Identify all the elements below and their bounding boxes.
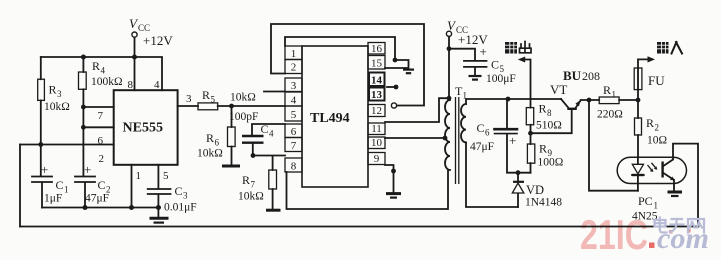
svg-text:TL494: TL494	[310, 111, 350, 126]
svg-text:1N4148: 1N4148	[525, 197, 562, 209]
svg-text:100pF: 100pF	[229, 111, 258, 123]
svg-text:6: 6	[215, 138, 220, 148]
svg-text:C: C	[477, 121, 485, 135]
svg-text:100Ω: 100Ω	[538, 157, 564, 169]
svg-text:47μF: 47μF	[470, 141, 494, 153]
svg-text:12: 12	[371, 105, 382, 117]
svg-text:+: +	[84, 162, 91, 177]
svg-text:C: C	[98, 178, 106, 192]
svg-text:11: 11	[371, 123, 382, 135]
svg-text:3: 3	[57, 89, 62, 99]
svg-text:6: 6	[98, 135, 104, 147]
svg-text:2: 2	[291, 62, 297, 74]
svg-text:1: 1	[64, 185, 69, 195]
svg-text:8: 8	[547, 108, 552, 118]
svg-text:R: R	[539, 102, 547, 116]
svg-text:R: R	[539, 142, 547, 156]
svg-text:1: 1	[463, 91, 468, 101]
svg-text:R: R	[242, 173, 250, 187]
svg-text:1: 1	[136, 170, 142, 182]
svg-text:4: 4	[101, 66, 106, 76]
svg-text:1μF: 1μF	[44, 193, 62, 205]
svg-text:1: 1	[612, 90, 617, 100]
svg-text:R: R	[49, 83, 57, 97]
svg-text:+: +	[509, 133, 516, 148]
svg-text:6: 6	[485, 128, 490, 138]
svg-text:7: 7	[98, 110, 104, 122]
svg-text:10: 10	[371, 137, 383, 149]
svg-text:13: 13	[371, 89, 383, 101]
svg-text:+: +	[480, 44, 487, 59]
svg-text:4: 4	[291, 95, 297, 107]
svg-text:208: 208	[582, 69, 600, 83]
svg-text:5: 5	[211, 95, 216, 105]
svg-text:2: 2	[99, 153, 105, 165]
svg-text:3: 3	[291, 80, 297, 92]
svg-text:2: 2	[655, 123, 660, 133]
svg-text:3: 3	[186, 93, 192, 105]
svg-text:10kΩ: 10kΩ	[230, 92, 256, 104]
svg-text:C: C	[175, 184, 183, 198]
svg-text:16: 16	[371, 43, 383, 55]
svg-text:7: 7	[251, 180, 256, 190]
svg-text:510Ω: 510Ω	[536, 120, 562, 132]
svg-text:5: 5	[291, 109, 297, 121]
svg-text:C: C	[491, 58, 499, 72]
svg-text:VT: VT	[550, 82, 567, 97]
svg-text:4: 4	[154, 79, 160, 91]
svg-text:NE555: NE555	[123, 121, 163, 136]
svg-text:1: 1	[654, 201, 659, 211]
svg-text:CC: CC	[138, 23, 150, 33]
svg-text:R: R	[202, 88, 210, 102]
svg-text:10kΩ: 10kΩ	[44, 101, 70, 113]
svg-text:1: 1	[291, 48, 297, 60]
svg-text:R: R	[646, 116, 654, 130]
svg-text:100μF: 100μF	[486, 73, 516, 85]
svg-text:100kΩ: 100kΩ	[91, 76, 123, 88]
svg-text:9: 9	[374, 153, 380, 165]
svg-text:220Ω: 220Ω	[597, 109, 623, 121]
svg-text:R: R	[603, 83, 611, 97]
svg-text:10kΩ: 10kΩ	[197, 148, 223, 160]
svg-text:6: 6	[291, 126, 297, 138]
svg-text:5: 5	[163, 170, 169, 182]
svg-text:BU: BU	[563, 68, 582, 83]
svg-text:15: 15	[371, 58, 383, 70]
svg-text:0.01μF: 0.01μF	[164, 202, 197, 214]
svg-text:7: 7	[291, 140, 297, 152]
svg-text:C: C	[56, 178, 64, 192]
svg-text:3: 3	[183, 191, 188, 201]
svg-text:C: C	[261, 122, 269, 136]
svg-text:R: R	[206, 131, 214, 145]
svg-text:+12V: +12V	[143, 33, 173, 48]
svg-text:+: +	[41, 162, 48, 177]
svg-text:8: 8	[291, 161, 297, 173]
svg-text:FU: FU	[648, 73, 665, 88]
svg-text:PC: PC	[638, 194, 653, 208]
svg-text:4: 4	[269, 129, 274, 139]
svg-text:10kΩ: 10kΩ	[238, 191, 264, 203]
svg-text:10Ω: 10Ω	[647, 135, 667, 147]
svg-text:14: 14	[371, 75, 383, 87]
svg-text:8: 8	[128, 79, 134, 91]
svg-text:R: R	[92, 59, 100, 73]
svg-text:47μF: 47μF	[85, 193, 109, 205]
svg-text:VD: VD	[526, 183, 544, 197]
